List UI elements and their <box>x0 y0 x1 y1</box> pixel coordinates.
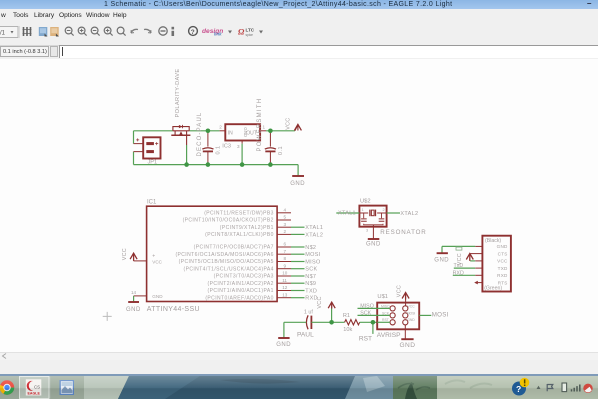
glass sheen <box>0 376 598 399</box>
svg-text:(PCINT11/RESET/DW)PB3: (PCINT11/RESET/DW)PB3 <box>204 210 274 216</box>
window title bar <box>0 0 598 9</box>
capacitor output 0.1 <box>265 131 276 165</box>
IC1 pin numbers <box>282 207 288 297</box>
resonator U$2 <box>359 198 426 236</box>
svg-text:IC1: IC1 <box>147 200 157 206</box>
svg-text:XTAL2: XTAL2 <box>305 232 323 238</box>
svg-text:N$7: N$7 <box>305 274 316 280</box>
wire regulator gnd down <box>241 144 243 165</box>
svg-text:R1: R1 <box>343 313 350 319</box>
toolbar <box>0 24 598 46</box>
wire JP1 pin2 vertical <box>133 152 135 165</box>
wire gnd to cap <box>284 321 306 323</box>
svg-text:TXD: TXD <box>305 289 317 295</box>
wallpaper patches under glass <box>0 376 598 399</box>
svg-text:GND: GND <box>434 257 449 263</box>
IC1 internal pin labels <box>175 210 273 301</box>
svg-text:13: 13 <box>282 292 288 297</box>
svg-text:RST: RST <box>382 318 389 322</box>
menu bar <box>0 9 598 24</box>
svg-text:IC3: IC3 <box>222 144 231 150</box>
svg-text:SCK: SCK <box>305 267 317 273</box>
svg-text:(PCINT4/T1/SCL/USCK/ADC4)PA4: (PCINT4/T1/SCL/USCK/ADC4)PA4 <box>183 266 273 272</box>
svg-text:MISO: MISO <box>360 304 374 310</box>
svg-text:(PCINT9/XTAL2)PB1: (PCINT9/XTAL2)PB1 <box>220 225 274 231</box>
svg-text:VCC: VCC <box>122 248 128 260</box>
stop icon <box>159 27 167 35</box>
svg-text:(PCINT5/OC1B/MISO/DO/ADC5)PA5: (PCINT5/OC1B/MISO/DO/ADC5)PA5 <box>179 259 274 265</box>
svg-text:MOSI: MOSI <box>407 311 416 315</box>
svg-text:IN: IN <box>228 130 233 136</box>
wire MOSI out of header <box>419 314 431 316</box>
wire mosfet gate to ground rail <box>186 145 188 165</box>
ground at resonator <box>372 227 374 239</box>
svg-text:PAUL: PAUL <box>297 331 314 338</box>
help icon <box>189 27 198 36</box>
svg-text:VCC: VCC <box>152 259 162 264</box>
layer icon blue <box>39 27 48 36</box>
svg-text:6: 6 <box>284 242 287 247</box>
svg-text:GND: GND <box>276 342 291 348</box>
svg-text:POWERSMITH: POWERSMITH <box>257 98 263 152</box>
wire XTAL1 stub left of resonator <box>336 212 359 214</box>
undo redo arrows <box>131 29 151 33</box>
svg-text:RXD: RXD <box>453 271 464 277</box>
transistor polarity mosfet <box>171 125 190 145</box>
svg-text:POLARITY-DAVE: POLARITY-DAVE <box>175 68 181 117</box>
svg-text:0.1: 0.1 <box>278 146 284 155</box>
svg-text:GND: GND <box>290 181 305 187</box>
header U$1 AVRISP <box>377 294 419 339</box>
IC1 net labels <box>305 225 323 302</box>
power VCC symbol at IC1 <box>130 253 137 261</box>
taskbar <box>0 376 598 399</box>
svg-text:XTAL1: XTAL1 <box>338 210 356 216</box>
capacitor PAUL 1uf <box>306 315 311 329</box>
eagle taskbar button active <box>20 377 50 399</box>
power VCC at AVRISP <box>405 300 407 307</box>
svg-text:CTS: CTS <box>498 251 508 256</box>
svg-text:3: 3 <box>366 228 368 232</box>
svg-text:+: + <box>152 253 155 259</box>
svg-text:14: 14 <box>131 290 137 295</box>
svg-text:(PCINT6/OC1A/SDA/MOSI/ADC6)PA6: (PCINT6/OC1A/SDA/MOSI/ADC6)PA6 <box>175 252 273 258</box>
print icon tan <box>50 27 59 36</box>
tray small icons <box>537 386 541 389</box>
junction dots RST rail <box>329 320 334 325</box>
ground symbol power <box>297 165 299 176</box>
svg-text:VCC: VCC <box>408 304 416 308</box>
svg-text:VCC: VCC <box>396 285 402 297</box>
svg-text:0.1: 0.1 <box>216 146 222 155</box>
svg-text:XTAL2: XTAL2 <box>400 211 418 217</box>
svg-text:RXD: RXD <box>497 273 508 278</box>
wire R1 to RST junction <box>360 321 378 323</box>
svg-text:MISO: MISO <box>381 304 390 308</box>
svg-text:SCK: SCK <box>382 311 390 315</box>
grid icon <box>23 27 32 36</box>
power VCC symbol <box>294 124 301 130</box>
wire JP1 pin1 vertical <box>133 131 135 144</box>
wire FTDI vcc <box>470 260 475 262</box>
IC1 VCC pin left <box>134 260 147 262</box>
svg-text:TXD: TXD <box>498 266 508 271</box>
svg-text:VCC: VCC <box>497 259 508 264</box>
svg-text:12: 12 <box>282 285 288 290</box>
svg-text:SCK: SCK <box>360 311 371 317</box>
ground symbol IC1 <box>128 301 139 303</box>
wire top rail left <box>134 130 173 132</box>
ground at AVRISP <box>404 325 406 339</box>
svg-text:AVRISP: AVRISP <box>377 332 401 339</box>
svg-text:3: 3 <box>284 222 287 227</box>
wire regulator out to vcc <box>266 130 295 132</box>
resistor R1 <box>345 320 360 325</box>
node origin cross <box>103 312 112 321</box>
power VCC at FTDI <box>466 254 473 261</box>
svg-text:(PCINT0/AREF/ADC0)PA0: (PCINT0/AREF/ADC0)PA0 <box>205 295 273 301</box>
svg-text:N$9: N$9 <box>305 281 316 287</box>
svg-text:RESONATOR: RESONATOR <box>380 229 426 236</box>
svg-text:11: 11 <box>282 278 287 283</box>
wire pin14 to gnd <box>133 296 135 302</box>
info icon <box>172 27 175 30</box>
svg-text:(Green): (Green) <box>484 286 502 292</box>
svg-text:U$1: U$1 <box>377 294 388 300</box>
ground symbol at PAUL <box>278 337 289 339</box>
svg-text:VCC: VCC <box>285 118 291 130</box>
capacitor DECO-PAUL <box>202 131 213 165</box>
svg-text:GND: GND <box>497 244 508 249</box>
sheet dropdown <box>0 27 18 38</box>
svg-text:(PCINT2/AIN1/ADC2)PA2: (PCINT2/AIN1/ADC2)PA2 <box>208 281 274 287</box>
svg-text:2: 2 <box>284 229 287 234</box>
svg-text:XTAL1: XTAL1 <box>305 225 323 231</box>
wire ground rail <box>134 164 299 166</box>
chrome icon <box>0 380 14 394</box>
tray help balloon <box>512 382 526 396</box>
svg-text:7: 7 <box>284 249 287 254</box>
svg-text:TxD: TxD <box>454 263 464 269</box>
IC1 right pin wires <box>291 227 305 298</box>
canvas <box>0 59 598 352</box>
wire RST label drop <box>372 322 374 334</box>
command bar <box>0 46 598 59</box>
svg-text:2: 2 <box>383 208 385 212</box>
svg-text:(PCINT1/AIN0/ADC1)PA1: (PCINT1/AIN0/ADC1)PA1 <box>208 288 274 294</box>
svg-text:MOSI: MOSI <box>305 252 320 258</box>
svg-text:RTS: RTS <box>498 280 508 285</box>
wire MISO into header <box>358 307 391 309</box>
svg-text:(PCINT3/T0/ADC3)PA3: (PCINT3/T0/ADC3)PA3 <box>214 274 274 280</box>
connector JP1 <box>134 137 161 158</box>
svg-text:(Black): (Black) <box>485 238 501 244</box>
scrollbar left arrow <box>3 354 7 359</box>
svg-text:1 uf: 1 uf <box>304 309 313 315</box>
svg-text:GND: GND <box>152 294 163 299</box>
wire cap to vcc junction <box>311 321 344 323</box>
svg-text:10: 10 <box>282 271 288 276</box>
magnifier icons <box>65 27 125 35</box>
svg-text:GND: GND <box>126 307 141 313</box>
wire SCK into header <box>358 314 391 316</box>
svg-text:DECO-PAUL: DECO-PAUL <box>197 112 203 157</box>
IC1 GND pin 14 <box>134 295 147 297</box>
wire FTDI rxd <box>453 274 475 276</box>
svg-text:MISO: MISO <box>305 260 321 266</box>
wire RST into header <box>377 321 390 323</box>
svg-text:N$2: N$2 <box>305 245 316 251</box>
svg-text:4: 4 <box>284 207 287 212</box>
svg-text:VCC: VCC <box>317 296 323 308</box>
svg-text:(PCINT8/XTAL1/CLKI)PB0: (PCINT8/XTAL1/CLKI)PB0 <box>205 232 274 238</box>
wire top rail mosfet to regulator <box>189 130 219 132</box>
svg-text:5: 5 <box>284 215 287 220</box>
svg-text:(PCINT10/INT0/OC0A/CKOUT)PB2: (PCINT10/INT0/OC0A/CKOUT)PB2 <box>183 218 274 224</box>
svg-text:RST: RST <box>359 336 372 343</box>
wire FTDI txd <box>454 267 475 269</box>
ground symbol FTDI <box>437 252 448 254</box>
connector FTDI (Black) <box>470 236 511 292</box>
svg-text:(PCINT7/ICP/OC0B/ADC7)PA7: (PCINT7/ICP/OC0B/ADC7)PA7 <box>194 245 274 251</box>
svg-text:8: 8 <box>284 256 287 261</box>
svg-text:ATTINY44-SSU: ATTINY44-SSU <box>147 306 200 313</box>
svg-text:GND: GND <box>243 127 248 137</box>
svg-text:GND: GND <box>400 342 416 349</box>
wire FTDI gnd <box>442 246 475 253</box>
svg-text:9: 9 <box>284 263 287 268</box>
image viewer button <box>60 380 75 395</box>
svg-text:JP1: JP1 <box>148 159 158 165</box>
svg-text:GND: GND <box>366 242 381 248</box>
svg-text:MOSI: MOSI <box>432 312 449 319</box>
wire XTAL2 stub right of resonator <box>387 212 400 214</box>
svg-text:3: 3 <box>237 144 240 149</box>
svg-text:U$2: U$2 <box>360 198 371 204</box>
junction dots power <box>184 129 272 167</box>
svg-text:10k: 10k <box>343 327 352 333</box>
svg-text:GND: GND <box>407 318 415 322</box>
op-amp regulator IC3 <box>220 124 266 144</box>
IC U1 ATTINY44 box <box>147 206 278 301</box>
IC1 right pin stubs <box>277 213 291 298</box>
svg-text:1: 1 <box>362 208 364 212</box>
net box on gnd wire <box>456 247 462 250</box>
power VCC at PAUL <box>331 309 333 323</box>
svg-text:2: 2 <box>219 125 222 130</box>
